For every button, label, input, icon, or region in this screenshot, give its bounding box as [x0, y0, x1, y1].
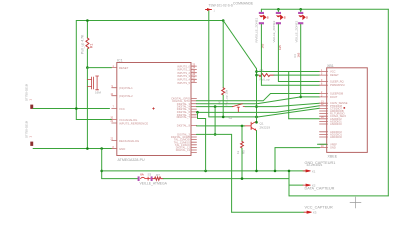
IC1 right pin stubs top group: [191, 66, 197, 83]
junction R6 bottom: [222, 116, 225, 119]
junction TSW rail1: [204, 170, 207, 173]
solder jumper S3 pad 1: [138, 176, 140, 181]
svg-text:XBEE: XBEE: [328, 155, 338, 159]
net flag VCC_CAPTEUR: [304, 211, 312, 213]
wire R6 column lower: [222, 95, 224, 117]
svg-text:IC1: IC1: [117, 59, 123, 63]
resistor R6 Pull_up 10k zigzag: [222, 88, 225, 95]
svg-text:R1: R1: [90, 44, 94, 48]
solder jumper col3 pad A: [298, 12, 303, 14]
wire column1 to XBee PWM pin: [261, 84, 319, 86]
connector SV1 TSW-101 symbol: [206, 9, 212, 11]
junction GND x87: [86, 147, 89, 150]
XBee left pin stubs: [320, 72, 328, 148]
origin crosshair: [350, 197, 361, 208]
wire right frame vertical: [387, 9, 389, 196]
wire R5 top: [241, 126, 243, 141]
wire RX pin to x231 column: [197, 133, 232, 135]
wire top-left VCC rail horizontal: [76, 20, 223, 22]
net flag DATA_CAPTEUR: [303, 184, 311, 186]
junction VCC x76: [75, 107, 78, 110]
wire VCC from connector to IC1 pin7: [33, 108, 109, 110]
svg-text:2N2219: 2N2219: [260, 125, 271, 129]
wire bottom rail2 right part: [163, 178, 289, 180]
wire column1 down: [260, 25, 262, 86]
XBee name red marker: [344, 107, 346, 109]
solder jumper col3 top stub: [300, 9, 302, 12]
resistor R1 Pull_up 4.7K zigzag: [86, 38, 89, 49]
transistor Q1 emitter arrow: [254, 128, 256, 131]
solder jumper col2 element: [277, 15, 283, 19]
svg-text:AS0/DIO0: AS0/DIO0: [330, 122, 342, 126]
wire DATA_CAPTEUR from x289: [289, 184, 303, 186]
wire XBee VREF stub: [318, 143, 327, 145]
XBee XB1 box: [327, 68, 368, 153]
wire F row to XBee: [223, 108, 319, 117]
solder jumper S3 pad 2: [151, 176, 153, 181]
svg-text:PWM0/RSSI: PWM0/RSSI: [330, 83, 345, 87]
junction bottom rail1 left: [100, 170, 103, 173]
svg-text:X1: X1: [312, 169, 316, 173]
wire bottom rail2 VEILLE_ATMEGA left part: [102, 178, 139, 180]
wire R5 bottom to rail2: [241, 148, 243, 178]
svg-text:R?: R?: [156, 173, 160, 177]
wire row E from IC1 with diagonal to XBee: [197, 106, 320, 113]
svg-text:VEILLE_ATMEGA: VEILLE_ATMEGA: [140, 181, 168, 185]
junction top rail col2: [277, 8, 280, 11]
solder jumper S1 pad A: [259, 12, 264, 14]
junction node RESET row: [255, 74, 258, 77]
svg-text:GND: GND: [330, 146, 336, 150]
svg-text:Pull_up 10k: Pull_up 10k: [224, 89, 228, 105]
svg-text:AD0/DIO0: AD0/DIO0: [330, 135, 342, 139]
IC1 right pin numbers top group: [193, 64, 196, 83]
solder jumper S1 pad B: [259, 22, 264, 24]
junction RESET node: [86, 66, 89, 69]
wire x288 to XBee pin: [289, 118, 320, 120]
wire XBee GND to corner: [275, 147, 320, 149]
junction emitter rail1: [255, 170, 258, 173]
IC1 left pin numbers: [111, 66, 115, 149]
wire R1 bottom to RESET junction: [86, 49, 88, 68]
wire XBee VCC row: [257, 71, 320, 73]
svg-text:S3: S3: [148, 173, 152, 177]
solder jumper col2 pad B: [276, 22, 281, 24]
svg-text:1: 1: [214, 9, 216, 12]
svg-text:VCC: VCC: [119, 107, 125, 111]
solder jumper col3 element: [299, 15, 305, 19]
svg-text:INPUTS_REFERENCE: INPUTS_REFERENCE: [119, 121, 148, 125]
svg-text:DATA_CAPTEUR: DATA_CAPTEUR: [305, 186, 335, 190]
svg-text:DIGITAL_9: DIGITAL_9: [177, 124, 191, 128]
junction top rail col3: [299, 8, 302, 11]
solder jumper S2 column 2 top stub: [277, 9, 279, 12]
wire column3 down: [300, 25, 302, 97]
svg-text:DOUT: DOUT: [330, 95, 338, 99]
junction node VCC row: [255, 70, 258, 73]
junction F row node column: [255, 116, 258, 119]
svg-text:VEILLE_ZONE2: VEILLE_ZONE2: [295, 20, 299, 42]
svg-text:R/VEILLE_ZONE1: R/VEILLE_ZONE1: [255, 17, 259, 42]
svg-text:22-20-2021: 22-20-2021: [307, 163, 323, 167]
svg-text:RESET: RESET: [119, 66, 129, 70]
IC1 left pin names: [119, 66, 148, 151]
solder jumper S1 column 1 top stub: [260, 9, 262, 12]
svg-text:1k: 1k: [236, 150, 240, 154]
IC1 right pin names mid group: [172, 97, 191, 128]
XBee pin numbers: [321, 70, 324, 148]
svg-text:R4: R4: [293, 54, 297, 58]
wire diagonal from top rail to node column: [223, 21, 256, 69]
wire AVCC horizontal to IC1 pin 20: [76, 119, 111, 121]
junction GND x101.7: [100, 147, 103, 150]
net flag GND_CAPTEUR1: [303, 170, 311, 172]
wire Q1 emitter down to rail1: [256, 131, 258, 171]
wire row E jog down: [198, 112, 206, 171]
svg-text:VCC_CAPTEUR: VCC_CAPTEUR: [305, 205, 334, 209]
wire base row from IC1 to Q1: [197, 125, 245, 127]
wire node column vertical: [256, 69, 258, 122]
junction x215 on RX wire: [214, 133, 217, 136]
svg-text:1: 1: [29, 136, 33, 138]
svg-text:16M: 16M: [95, 91, 101, 95]
IC1 left pin stubs: [112, 68, 117, 149]
IC1 right pin stubs mid group: [191, 99, 197, 126]
junction base row R5: [241, 125, 244, 128]
wire x231 vertical down: [231, 134, 233, 212]
svg-text:ST750-021B: ST750-021B: [25, 121, 29, 138]
wire RESET to IC1 pin1: [87, 67, 111, 69]
svg-text:VA: VA: [140, 172, 144, 176]
svg-text:S2: S2: [229, 116, 233, 120]
wire GND drop to bottom rails: [101, 149, 103, 179]
svg-text:SLEEP_RQ: SLEEP_RQ: [330, 80, 344, 84]
wire bottom to VCC_CAPTEUR: [232, 211, 304, 213]
IC1 right pin names top group: [177, 64, 190, 85]
junction top rail x223: [222, 19, 225, 22]
solder jumper col2 pad A: [276, 12, 281, 14]
svg-text:(X2)XTAL2: (X2)XTAL2: [119, 94, 133, 98]
switch S2 symbol: [233, 104, 245, 112]
resistor R9 Pull_up zigzag: [259, 74, 274, 77]
junction collector: [255, 121, 258, 124]
resistor R8 zigzag bottom: [153, 177, 164, 180]
wire column2 to XBee SLEEP pin: [278, 81, 319, 83]
svg-text:(X1)XTAL1: (X1)XTAL1: [119, 86, 133, 90]
crystal Q2 stubs: [87, 80, 91, 87]
wire bottom return horizontal: [289, 195, 388, 197]
wire row A from IC1: [197, 94, 320, 101]
junction row E at pin: [196, 111, 199, 114]
junction rail1 x289: [288, 170, 291, 173]
wire switch row continue: [245, 103, 320, 106]
wire x289 vertical rail1 to return: [288, 171, 290, 196]
wire RESET row to R9: [257, 74, 260, 76]
wire GND corner down to rail1: [274, 148, 276, 171]
wire column2 down: [277, 25, 279, 82]
connector X6 lower (ST750) body: [30, 142, 33, 146]
junction node switch row: [255, 105, 258, 108]
svg-text:1: 1: [29, 99, 33, 101]
svg-text:Pull_up 4.7K: Pull_up 4.7K: [81, 34, 85, 54]
svg-text:INPUTS_5: INPUTS_5: [177, 81, 190, 85]
resistor R5 zigzag: [241, 141, 244, 148]
svg-text:XB1: XB1: [327, 64, 334, 68]
svg-text:S: S: [306, 16, 308, 20]
IC1 right pin names bottom group: [171, 133, 191, 153]
junction column3 bottom: [299, 96, 302, 99]
wire TSW vertical down to rail1: [209, 21, 223, 117]
svg-text:1k5: 1k5: [296, 52, 300, 57]
wire top rail right section: [261, 8, 388, 10]
svg-text:COMMANDE: COMMANDE: [233, 1, 254, 5]
svg-text:SLEEP/DI8: SLEEP/DI8: [330, 92, 344, 96]
IC1 origin marker: [153, 108, 155, 110]
svg-text:VCC: VCC: [330, 70, 336, 74]
connector X5 upper (ST750) body: [30, 105, 33, 109]
wire GND from connector to IC1 pin8: [33, 148, 112, 150]
svg-text:ATMEGA328-PU: ATMEGA328-PU: [118, 158, 145, 162]
wire vertical continuing down to GND rail: [86, 68, 88, 149]
junction switch row x215: [214, 105, 217, 108]
svg-text:S: S: [284, 16, 286, 20]
junction R5 rail2: [241, 177, 244, 180]
wire left vertical from top rail down to AVCC corner: [75, 21, 77, 120]
wire TSW down stub: [208, 11, 210, 21]
wire R1 top segment: [86, 21, 88, 39]
XBee pin names: [330, 70, 348, 150]
wire x215 vertical down: [214, 107, 216, 135]
wire R6 column upper: [222, 21, 224, 88]
wire switch row from IC1: [197, 106, 233, 108]
svg-text:DIGITAL_13: DIGITAL_13: [176, 148, 191, 152]
svg-text:VEILLE_ZONE3: VEILLE_ZONE3: [272, 20, 276, 42]
solder jumper S3 red element: [141, 177, 151, 180]
IC1 right pin stubs bottom group: [191, 134, 197, 152]
wire R9 to XBee RESET pin: [274, 74, 320, 76]
transistor Q1: [245, 121, 257, 130]
wire bottom rail1 GND_CAPTEUR1: [102, 170, 306, 172]
svg-text:GND: GND: [119, 147, 125, 151]
wire row B from IC1 diagonal to col3 node: [197, 97, 320, 104]
junction top of R1: [86, 19, 89, 22]
solder jumper S1 element: [260, 15, 266, 19]
solder jumper col3 pad B: [298, 22, 303, 24]
svg-text:S: S: [267, 16, 269, 20]
crystal Q2 plates: [92, 76, 99, 90]
svg-text:ST750-021B: ST750-021B: [25, 84, 29, 101]
IC1 ATmega328 box: [117, 63, 191, 156]
svg-text:DECK/ANALOG: DECK/ANALOG: [119, 139, 139, 143]
svg-text:TSW-101-02-S-S: TSW-101-02-S-S: [209, 3, 233, 7]
wire x288 vertical down: [288, 72, 290, 119]
svg-text:X3: X3: [313, 211, 317, 215]
svg-text:DIGITAL_T: DIGITAL_T: [177, 115, 191, 119]
junction GND rail1: [274, 170, 277, 173]
svg-text:RESET: RESET: [330, 73, 339, 77]
